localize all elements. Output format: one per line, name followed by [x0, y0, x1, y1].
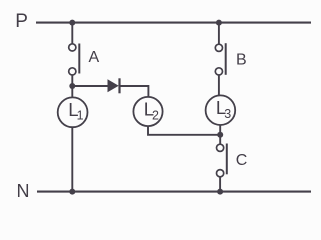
wire lamp L1 to N [71, 127, 73, 191]
wire lamp L3 to mid junction [219, 125, 221, 135]
switch C label [236, 152, 248, 169]
switch A label [89, 49, 100, 66]
wire lamp L2 to mid junction [148, 126, 220, 135]
svg-text:A: A [89, 49, 100, 66]
wire diode to lamp L2 [120, 86, 149, 97]
switch C [217, 144, 227, 177]
wire switch C to N [219, 177, 221, 192]
junction P to branch B [216, 20, 222, 26]
wire P to switch A [71, 23, 73, 44]
wire junction A to lamp L1 [71, 86, 73, 97]
svg-text:P: P [15, 11, 28, 32]
wire junction A to diode [72, 85, 107, 87]
node N label [17, 181, 30, 201]
switch B label [236, 52, 247, 69]
wire switch A to junction [71, 75, 73, 86]
svg-text:B: B [236, 52, 247, 69]
wire N bus [37, 191, 311, 193]
wire mid junction to switch C [219, 135, 221, 144]
junction N to branch L1 [69, 189, 75, 195]
svg-text:C: C [236, 152, 248, 169]
switch A [69, 44, 80, 76]
svg-text:2: 2 [152, 108, 159, 122]
junction N to branch C [217, 189, 223, 195]
wire P to switch B [218, 23, 220, 44]
junction P to branch A [69, 20, 75, 26]
node P label [15, 11, 28, 32]
diode D1 [108, 78, 120, 93]
wire P bus [36, 22, 311, 24]
svg-text:N: N [17, 181, 30, 201]
lamp L1 [58, 97, 88, 127]
wire switch B to lamp L3 [218, 75, 220, 96]
lamp L3 [206, 95, 236, 125]
junction mid node [217, 132, 223, 138]
lamp L2 [133, 97, 162, 126]
switch B [215, 43, 225, 75]
svg-text:1: 1 [77, 109, 84, 123]
junction node below switch A [69, 83, 75, 89]
svg-text:3: 3 [224, 107, 231, 121]
